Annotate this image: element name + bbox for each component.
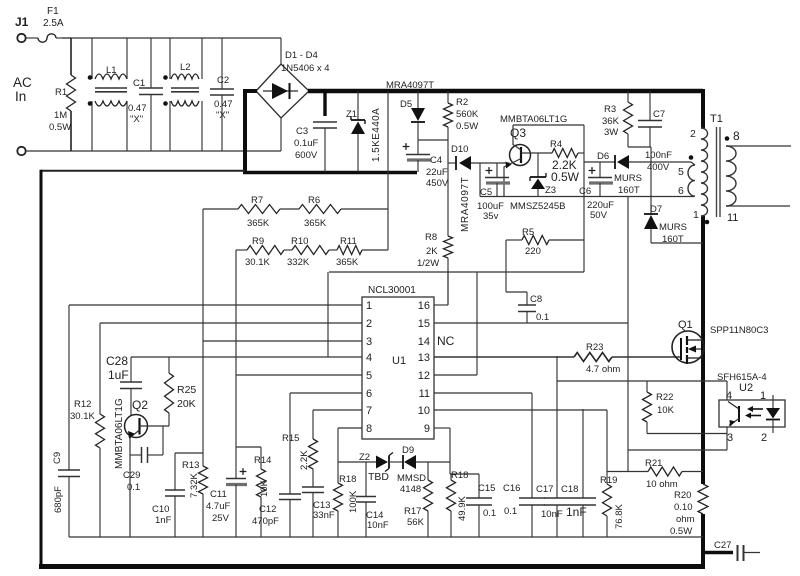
svg-text:3W: 3W (604, 127, 618, 138)
svg-text:0.1: 0.1 (483, 508, 496, 519)
svg-text:C16: C16 (503, 483, 520, 494)
svg-text:1N5406 x 4: 1N5406 x 4 (281, 63, 330, 74)
svg-text:MURS: MURS (614, 173, 642, 184)
svg-text:15: 15 (418, 318, 430, 330)
svg-text:10 ohm: 10 ohm (646, 479, 678, 490)
svg-text:C27: C27 (714, 540, 731, 551)
svg-text:14: 14 (418, 336, 430, 348)
svg-text:49.9K: 49.9K (457, 496, 468, 521)
svg-text:30.1K: 30.1K (70, 411, 95, 422)
svg-text:160T: 160T (618, 185, 640, 196)
svg-text:2: 2 (366, 318, 372, 330)
svg-text:160T: 160T (662, 234, 684, 245)
svg-text:MMBTA06LT1G: MMBTA06LT1G (500, 114, 567, 125)
svg-text:R14: R14 (254, 455, 271, 466)
svg-text:MURS: MURS (659, 222, 687, 233)
svg-text:J1: J1 (15, 15, 29, 29)
svg-text:1/2W: 1/2W (417, 258, 439, 269)
svg-text:C6: C6 (579, 186, 591, 197)
svg-text:0.1: 0.1 (536, 312, 549, 323)
svg-text:1: 1 (693, 209, 699, 221)
svg-text:C3: C3 (296, 126, 308, 137)
svg-text:0.10: 0.10 (674, 502, 693, 513)
svg-text:1.5KE440A: 1.5KE440A (371, 108, 382, 162)
svg-text:R12: R12 (74, 399, 91, 410)
svg-text:D5: D5 (400, 99, 412, 110)
svg-text:450V: 450V (426, 178, 449, 189)
svg-text:3: 3 (366, 336, 372, 348)
svg-text:C15: C15 (478, 483, 495, 494)
svg-text:D10: D10 (451, 144, 468, 155)
svg-text:R10: R10 (291, 236, 308, 247)
svg-text:25V: 25V (212, 513, 230, 524)
svg-text:R19: R19 (600, 475, 617, 486)
svg-text:U2: U2 (739, 382, 753, 394)
svg-text:MMBTA06LT1G: MMBTA06LT1G (114, 398, 125, 469)
svg-text:R17: R17 (404, 506, 421, 517)
svg-text:D9: D9 (402, 445, 414, 456)
svg-text:2K: 2K (426, 246, 438, 257)
svg-text:9: 9 (424, 423, 430, 435)
svg-text:SPP11N80C3: SPP11N80C3 (710, 325, 768, 336)
svg-text:R13: R13 (182, 460, 199, 471)
svg-text:10: 10 (418, 405, 430, 417)
svg-text:C7: C7 (653, 109, 665, 120)
svg-text:R8: R8 (425, 232, 437, 243)
svg-text:0.1: 0.1 (127, 482, 140, 493)
svg-text:7: 7 (366, 405, 372, 417)
svg-text:NCL30001: NCL30001 (368, 285, 416, 296)
svg-text:35v: 35v (483, 211, 499, 222)
svg-text:76.8K: 76.8K (614, 504, 625, 529)
svg-text:R11: R11 (340, 236, 357, 247)
svg-text:560K: 560K (456, 109, 479, 120)
svg-text:0.5W: 0.5W (456, 121, 478, 132)
svg-text:0.47: 0.47 (214, 99, 233, 110)
svg-text:F1: F1 (47, 6, 59, 17)
svg-text:R20: R20 (674, 490, 691, 501)
svg-text:11: 11 (727, 212, 738, 224)
svg-text:C18: C18 (561, 484, 578, 495)
svg-text:0.47: 0.47 (128, 103, 147, 114)
svg-text:0.5W: 0.5W (670, 526, 692, 537)
svg-text:50V: 50V (590, 210, 608, 221)
svg-text:R7: R7 (251, 195, 263, 206)
svg-text:L2: L2 (180, 62, 191, 73)
svg-text:4: 4 (366, 352, 372, 364)
svg-text:6: 6 (366, 388, 372, 400)
svg-text:4.7 ohm: 4.7 ohm (586, 364, 620, 375)
svg-text:R5: R5 (522, 227, 534, 238)
svg-text:C1: C1 (133, 78, 145, 89)
svg-text:1nF: 1nF (566, 505, 587, 519)
svg-text:Q1: Q1 (678, 319, 693, 331)
svg-text:C8: C8 (530, 294, 542, 305)
svg-text:C5: C5 (480, 187, 492, 198)
svg-text:365K: 365K (336, 257, 359, 268)
svg-text:R15: R15 (282, 433, 299, 444)
svg-text:2: 2 (761, 432, 767, 444)
svg-text:4.7uF: 4.7uF (206, 501, 230, 512)
svg-text:AC: AC (13, 75, 32, 90)
svg-text:2: 2 (690, 128, 696, 140)
svg-text:R21: R21 (645, 458, 662, 469)
svg-text:5: 5 (366, 370, 372, 382)
svg-text:6: 6 (678, 185, 684, 197)
svg-text:22uF: 22uF (426, 167, 448, 178)
svg-text:R18: R18 (339, 474, 356, 485)
svg-text:1nF: 1nF (155, 515, 172, 526)
svg-text:C17: C17 (536, 484, 553, 495)
svg-text:Q2: Q2 (132, 398, 148, 412)
svg-text:R2: R2 (456, 97, 468, 108)
svg-text:2.2K: 2.2K (299, 450, 310, 470)
svg-text:C11: C11 (210, 489, 227, 500)
svg-text:MMSD: MMSD (397, 473, 426, 484)
svg-text:In: In (15, 89, 26, 104)
svg-text:C4: C4 (430, 155, 442, 166)
svg-text:5: 5 (678, 166, 684, 178)
svg-text:R3: R3 (604, 104, 616, 115)
svg-text:R4: R4 (550, 139, 562, 150)
svg-text:C2: C2 (217, 75, 229, 86)
svg-text:12: 12 (418, 370, 430, 382)
svg-text:11: 11 (419, 388, 430, 400)
svg-text:MRA4097T: MRA4097T (386, 80, 434, 91)
svg-text:0.5W: 0.5W (551, 170, 580, 184)
svg-text:R9: R9 (252, 236, 264, 247)
svg-text:R6: R6 (308, 195, 320, 206)
svg-text:TBD: TBD (368, 471, 389, 483)
svg-text:8: 8 (733, 129, 740, 143)
svg-text:R1: R1 (55, 87, 67, 98)
svg-text:1M: 1M (54, 110, 67, 121)
svg-text:365K: 365K (304, 218, 327, 229)
svg-text:10K: 10K (259, 479, 270, 497)
svg-text:D1 - D4: D1 - D4 (285, 50, 318, 61)
svg-text:T1: T1 (710, 113, 723, 125)
svg-text:16: 16 (418, 300, 430, 312)
svg-text:R23: R23 (586, 342, 603, 353)
svg-text:D6: D6 (597, 151, 609, 162)
svg-text:0.1uF: 0.1uF (294, 138, 318, 149)
svg-text:L1: L1 (106, 65, 117, 76)
svg-text:ohm: ohm (676, 514, 695, 525)
svg-text:13: 13 (418, 352, 430, 364)
svg-text:100nF: 100nF (645, 150, 672, 161)
svg-text:Z2: Z2 (359, 452, 370, 463)
svg-text:R22: R22 (656, 392, 673, 403)
svg-text:C10: C10 (152, 504, 169, 515)
svg-text:680pF: 680pF (53, 486, 64, 513)
svg-text:R25: R25 (177, 384, 196, 396)
svg-text:"X": "X" (130, 114, 143, 125)
svg-text:220: 220 (525, 246, 541, 257)
svg-text:0.1: 0.1 (504, 506, 517, 517)
svg-text:R18: R18 (451, 470, 468, 481)
svg-text:470pF: 470pF (252, 516, 279, 527)
svg-text:MMSZ5245B: MMSZ5245B (510, 201, 565, 212)
svg-text:C29: C29 (123, 470, 140, 481)
svg-text:10nF: 10nF (367, 520, 389, 531)
svg-text:0.5W: 0.5W (49, 122, 71, 133)
svg-text:Z1: Z1 (346, 109, 357, 120)
svg-text:8: 8 (366, 423, 372, 435)
svg-text:10nF: 10nF (541, 509, 563, 520)
svg-text:332K: 332K (287, 257, 310, 268)
svg-text:30.1K: 30.1K (245, 257, 270, 268)
svg-text:20K: 20K (177, 398, 196, 410)
svg-text:33nF: 33nF (313, 510, 335, 521)
svg-text:D7: D7 (650, 204, 662, 215)
svg-text:U1: U1 (392, 355, 406, 367)
svg-text:36K: 36K (602, 116, 620, 127)
svg-text:7.32K: 7.32K (189, 473, 200, 498)
svg-text:Z3: Z3 (545, 185, 556, 196)
svg-text:"X": "X" (216, 110, 229, 121)
svg-text:3: 3 (727, 432, 733, 444)
svg-text:600V: 600V (295, 150, 318, 161)
svg-text:4148: 4148 (400, 484, 421, 495)
svg-text:C28: C28 (106, 354, 128, 368)
svg-text:56K: 56K (407, 517, 425, 528)
svg-text:C9: C9 (52, 452, 63, 464)
svg-text:NC: NC (437, 334, 455, 348)
svg-text:1: 1 (366, 300, 372, 312)
svg-text:2.5A: 2.5A (43, 18, 64, 29)
svg-text:10K: 10K (657, 405, 675, 416)
svg-text:MRA4097T: MRA4097T (460, 177, 471, 232)
svg-text:365K: 365K (247, 218, 270, 229)
svg-text:1uF: 1uF (108, 368, 129, 382)
svg-text:C12: C12 (259, 504, 276, 515)
